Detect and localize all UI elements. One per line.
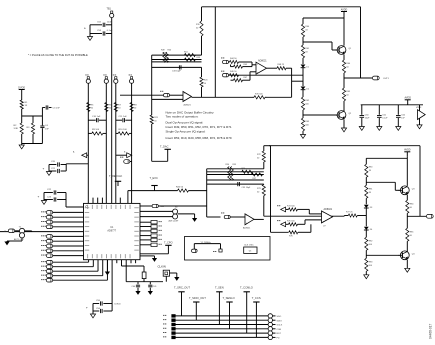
svg-text:AVDD: AVDD <box>404 97 411 100</box>
svg-text:Single Op-Amp per I/Q signal:: Single Op-Amp per I/Q signal: <box>166 129 206 133</box>
optional oscillator box outline <box>185 237 271 261</box>
capacitor C4 branch <box>40 116 49 144</box>
test point T_CPO <box>140 240 173 254</box>
op-amp U4 <box>243 213 254 229</box>
svg-text:C53: C53 <box>97 30 102 32</box>
svg-text:R45: R45 <box>244 64 249 66</box>
connector pad BIAS <box>120 157 132 164</box>
connector U2 input <box>120 91 183 97</box>
wire DUT pin to FB1 <box>122 260 145 272</box>
svg-text:+: + <box>323 219 325 223</box>
svg-text:1K: 1K <box>305 52 308 54</box>
resistor R10 between col3-col4 <box>116 129 132 135</box>
ground pair-B <box>41 201 46 205</box>
svg-text:T_SENLO: T_SENLO <box>223 296 235 300</box>
connector bus right 4 <box>268 327 281 331</box>
diode D3 <box>364 205 373 209</box>
connector IN1A <box>221 58 229 64</box>
transistor Q upper stage1 <box>335 46 352 55</box>
svg-text:500: 500 <box>305 125 309 127</box>
resistor R49 vertical <box>161 49 166 62</box>
resistor R2 branch <box>14 116 24 144</box>
svg-text:RST: RST <box>277 333 282 335</box>
test point T_EXC <box>150 176 158 191</box>
wire stage1 outer frame <box>344 7 372 78</box>
IC U1 pin-name text (micro) <box>85 205 139 259</box>
svg-text:CLKIN: CLKIN <box>158 264 166 268</box>
capacitor C33 <box>172 65 182 72</box>
wire left pin row 1 <box>53 211 84 213</box>
svg-text:AD9777: AD9777 <box>107 230 116 233</box>
svg-text:R55: R55 <box>233 164 238 166</box>
ferrite bead FB1 <box>142 272 146 282</box>
note: buffer circuitry note <box>166 111 232 141</box>
svg-text:R7: R7 <box>118 105 122 107</box>
ground emitter stage2 <box>405 260 410 273</box>
resistor R45 feedback upper <box>231 64 253 68</box>
test point TP5 <box>129 75 134 84</box>
connector pad row 3 <box>41 220 53 224</box>
wire pair-B rails <box>38 193 84 208</box>
wire left pin row 10 <box>53 255 84 257</box>
wire stage1 mid <box>302 58 304 64</box>
connector header pin 1 <box>163 314 176 317</box>
svg-text:T_CPO: T_CPO <box>164 240 173 244</box>
wire ch2 column x206.7 <box>206 169 208 217</box>
test point T_SRC_OUT <box>174 286 190 316</box>
resistor R74 <box>287 205 309 211</box>
wire column TP5 down <box>131 83 133 203</box>
svg-text:R61: R61 <box>305 48 310 50</box>
svg-text:R48 25: R48 25 <box>278 64 285 66</box>
wire base1 stage2 <box>366 177 400 190</box>
resistor R7 <box>114 103 121 112</box>
svg-text:R74 500: R74 500 <box>287 205 295 207</box>
oscillator U5 <box>244 245 257 254</box>
wire ch2 output net <box>264 146 345 233</box>
svg-text:R60: R60 <box>305 26 310 28</box>
resistor R19 vertical <box>196 7 203 55</box>
svg-text:R63: R63 <box>305 121 310 123</box>
ground at DUT bottom pin 6 <box>105 260 112 276</box>
resistor R55 vertical <box>230 164 237 181</box>
svg-text:D3: D3 <box>370 207 373 209</box>
resistor R77 <box>344 212 366 218</box>
text part number <box>429 324 433 339</box>
resistor R5 <box>87 103 94 112</box>
wire pair-A rails <box>43 164 89 172</box>
transistor Q lower stage1 <box>335 111 352 120</box>
wire output node stage1 <box>343 73 345 88</box>
svg-text:T_SDIO_OUT: T_SDIO_OUT <box>189 296 206 300</box>
svg-text:AD8021: AD8021 <box>324 208 333 211</box>
svg-text:R19: R19 <box>196 24 201 26</box>
ground below U6 <box>417 125 422 129</box>
resistor R64 <box>342 54 351 73</box>
svg-text:C33 10pF: C33 10pF <box>172 70 182 72</box>
wire ch2 column upper <box>264 146 271 151</box>
svg-text:U5: U5 <box>249 251 252 253</box>
wire base1 stage1 <box>303 37 337 50</box>
capacitor C21 pair-A bottom <box>49 168 66 173</box>
ground below divider <box>19 144 24 149</box>
svg-text:T2: T2 <box>175 207 178 209</box>
resistor R8 <box>130 103 137 112</box>
svg-text:CLK OSC: CLK OSC <box>244 245 254 247</box>
capacitor C20 pair-A top <box>49 161 66 166</box>
diode D1 <box>301 65 310 69</box>
svg-text:R26 50: R26 50 <box>176 187 184 189</box>
connector pad row 8 <box>41 244 53 248</box>
svg-text:R3: R3 <box>27 127 31 129</box>
svg-text:C61: C61 <box>382 114 387 116</box>
wire T1 to DUT row <box>25 230 32 233</box>
wire row2 to U7 <box>305 220 322 224</box>
svg-text:500: 500 <box>305 104 309 106</box>
wire collector Q lower stage2 <box>406 241 408 251</box>
resistor R73 vertical <box>257 184 265 216</box>
ground pair-A <box>46 172 51 176</box>
resistor R56 <box>242 168 253 173</box>
svg-text:R50: R50 <box>168 49 173 51</box>
svg-text:50: 50 <box>91 108 94 110</box>
capacitor C41 <box>148 282 157 291</box>
wire U7 out <box>343 215 345 218</box>
connector pad row 7 <box>41 239 53 243</box>
svg-text:R47: R47 <box>244 77 249 79</box>
svg-text:R20: R20 <box>204 80 209 82</box>
resistor R50 vertical <box>166 49 173 62</box>
capacitor C61 <box>377 105 388 127</box>
svg-text:T_CCMLO: T_CCMLO <box>240 286 253 290</box>
resistor R34 (boxed) right pin <box>140 238 162 241</box>
svg-text:1K: 1K <box>369 170 372 172</box>
svg-text:Q3: Q3 <box>412 188 416 190</box>
wire stage2 diode junction <box>365 208 367 226</box>
svg-text:AD8021: AD8021 <box>243 227 251 230</box>
svg-text:R77 25: R77 25 <box>346 212 353 214</box>
resistor R44 <box>229 58 257 65</box>
diode D2 <box>301 87 310 91</box>
resistor R53 <box>184 57 201 61</box>
ground below C41 <box>148 291 153 295</box>
svg-text:T_SRC_OUT: T_SRC_OUT <box>174 286 190 290</box>
svg-text:50: 50 <box>257 158 260 160</box>
resistor R31 (boxed) right pin <box>140 225 162 228</box>
svg-text:+: + <box>246 221 248 225</box>
resistor R84 <box>406 195 415 214</box>
resistor R30 (boxed) right pin <box>140 221 162 224</box>
svg-text:T_REFCLK: T_REFCLK <box>109 174 123 178</box>
svg-text:1nF: 1nF <box>45 128 49 130</box>
svg-text:PD: PD <box>277 338 280 340</box>
svg-text:T_CCS: T_CCS <box>252 296 261 300</box>
resistor R20 vertical <box>200 67 208 97</box>
transistor Q upper stage2 <box>398 186 415 195</box>
svg-text:AD8021: AD8021 <box>258 59 267 62</box>
wire output node stage2 <box>406 213 408 228</box>
connector OUT2 <box>426 214 433 218</box>
test point T_SDIO_OUT <box>189 296 206 320</box>
svg-text:D2: D2 <box>306 89 309 91</box>
svg-text:C30: C30 <box>160 206 165 208</box>
svg-text:D4: D4 <box>370 229 373 231</box>
svg-text:C41: C41 <box>153 286 158 288</box>
svg-text:SDIO: SDIO <box>277 320 283 322</box>
connector header pin 5 <box>163 331 176 334</box>
wire node to branches <box>22 109 43 116</box>
svg-text:R70 500: R70 500 <box>255 93 263 95</box>
svg-text:T_SEN: T_SEN <box>215 286 224 290</box>
wire cap left rail <box>90 25 112 37</box>
capacitor C3 top <box>42 105 60 116</box>
connector bus right 6 <box>268 335 280 339</box>
connector bus right 2 <box>268 318 282 322</box>
ground left column stage2 <box>364 271 369 278</box>
wire rail stage1 <box>303 17 344 46</box>
svg-text:3.9K: 3.9K <box>14 128 19 130</box>
capacitor C62 <box>396 105 406 127</box>
ground left column stage1 <box>300 131 305 138</box>
capacitor C23 pair-B bottom <box>44 196 66 201</box>
test point T_CCS <box>252 296 261 338</box>
ground emitter stage1 <box>341 119 346 131</box>
test point T_SENLO <box>223 296 235 329</box>
wire C55 rails <box>86 304 121 315</box>
resistor R9 between col1-col2 <box>88 129 106 135</box>
svg-text:R64: R64 <box>346 63 351 65</box>
wire op5 input <box>207 216 221 218</box>
svg-text:1K: 1K <box>25 105 28 107</box>
connector U4 input <box>221 213 230 219</box>
svg-text:10uF: 10uF <box>365 117 370 119</box>
connector bus right 1 <box>268 314 281 318</box>
resistor R62 <box>301 97 310 110</box>
op-amp U7 <box>322 208 333 227</box>
IC U1 bottom pin stubs <box>117 260 136 264</box>
svg-text:B: B <box>124 152 126 154</box>
svg-text:AVDD: AVDD <box>404 149 411 152</box>
transformer T1 <box>14 226 25 241</box>
svg-text:R62: R62 <box>305 100 310 102</box>
wire left pin row 7 <box>53 240 84 242</box>
wire left pin row 3 <box>53 221 84 223</box>
wire stage1 diode junction <box>302 68 304 86</box>
resistor R60 <box>301 24 310 37</box>
wire DUT bottom pin to C55 pair <box>111 265 113 304</box>
connector IN1B <box>221 71 229 77</box>
svg-text:50: 50 <box>134 108 137 110</box>
wire filter rows ch2 <box>207 169 264 184</box>
ground right pin row <box>140 256 157 262</box>
svg-text:A: A <box>73 151 75 154</box>
svg-text:C62: C62 <box>401 114 406 116</box>
svg-text:CSB: CSB <box>277 329 282 331</box>
wire stage2 mid <box>365 198 367 204</box>
power symbol AVDD stage2 <box>404 149 411 157</box>
svg-text:50: 50 <box>410 207 413 209</box>
svg-text:R76: R76 <box>289 236 294 238</box>
wire column TP2 down <box>87 83 89 203</box>
wire bottom pin fanout <box>53 260 108 281</box>
svg-text:Insert R53, R19, R20, R58, R68: Insert R53, R19, R20, R58, R68, R72, R78… <box>166 136 232 140</box>
connector pad bottom row 3 <box>41 269 53 273</box>
svg-text:R72: R72 <box>257 154 262 156</box>
wire left pin row 5 (to J1) <box>0 231 84 233</box>
connector pad bottom row 1 <box>41 260 53 264</box>
svg-text:R85: R85 <box>410 231 415 233</box>
wire bus line 2 <box>174 319 269 321</box>
svg-text:DVDD: DVDD <box>18 86 25 89</box>
wire left pin row 2 <box>53 216 84 218</box>
svg-text:R53: R53 <box>197 57 202 59</box>
svg-text:C11 1nF: C11 1nF <box>119 116 128 118</box>
svg-text:R51: R51 <box>184 52 189 54</box>
test point T_REFCLK <box>109 174 123 186</box>
svg-text:50: 50 <box>118 108 121 110</box>
svg-text:R84: R84 <box>410 203 415 205</box>
connector CLKIN <box>158 264 170 281</box>
svg-text:50: 50 <box>204 83 207 85</box>
resistor R76 feedback <box>271 231 311 238</box>
svg-text:C60: C60 <box>365 114 370 116</box>
resistor R46 <box>230 71 239 77</box>
svg-text:R80: R80 <box>369 166 374 168</box>
op-amp U2 <box>183 91 192 106</box>
connector J1 <box>4 229 19 233</box>
svg-text:50: 50 <box>196 28 199 30</box>
capacitor C55 <box>93 300 112 306</box>
svg-text:C21: C21 <box>51 168 56 170</box>
svg-text:+: + <box>184 98 186 102</box>
svg-text:-: - <box>184 91 185 95</box>
svg-text:R44 50: R44 50 <box>230 58 237 60</box>
svg-text:C23: C23 <box>47 196 52 198</box>
svg-text:R2: R2 <box>14 125 18 127</box>
svg-text:C3 1nF: C3 1nF <box>53 108 61 110</box>
svg-text:R81: R81 <box>369 188 374 190</box>
svg-text:U7: U7 <box>323 226 326 228</box>
wire column TP3 down <box>105 83 107 203</box>
wire clk rail <box>126 260 163 282</box>
resistor R57 <box>252 173 263 180</box>
connector pad bottom row 2 <box>41 265 53 269</box>
svg-text:10uF: 10uF <box>107 22 113 24</box>
resistor R61 <box>301 45 310 58</box>
test point TP2 <box>85 75 90 84</box>
reference U6 <box>416 105 425 125</box>
wire bus line 4 <box>174 328 269 330</box>
capacitor C11 between col3-col4 <box>116 116 132 122</box>
svg-text:ADT1-1WT: ADT1-1WT <box>169 220 180 223</box>
svg-text:500: 500 <box>369 265 373 267</box>
svg-text:1K: 1K <box>305 30 308 32</box>
svg-text:R1: R1 <box>25 102 29 104</box>
capacitor C52 <box>97 22 112 27</box>
connector header pin 6 <box>163 336 176 339</box>
connector pad row 9 <box>41 249 53 253</box>
svg-text:50: 50 <box>410 235 413 237</box>
wire collector Q lower stage1 <box>343 101 345 111</box>
wire top rail <box>202 6 361 8</box>
wire feedback vertical <box>310 224 312 232</box>
wire row C long <box>229 74 304 76</box>
svg-text:50: 50 <box>346 95 349 97</box>
test point TP3 <box>103 75 108 84</box>
connector pad row 4 <box>41 225 53 229</box>
connector OUT1 <box>372 76 389 80</box>
svg-text:R54: R54 <box>226 164 231 166</box>
wire left pin row 8 <box>53 245 84 247</box>
ground below C61 <box>377 127 382 131</box>
svg-text:SDO: SDO <box>277 316 282 318</box>
svg-text:R21: R21 <box>154 117 159 119</box>
wire U3 output <box>267 67 278 69</box>
connector pad REFIO <box>140 204 207 208</box>
wire filter rows ch1 <box>152 55 202 99</box>
svg-text:+: + <box>84 27 86 31</box>
connector bus right 5 <box>268 331 281 335</box>
resistor R81 <box>365 185 374 198</box>
capacitor C40 <box>132 282 141 291</box>
wire T2 secondary to ground <box>178 214 198 222</box>
wire T1 secondary to ground <box>4 238 22 246</box>
ground below C52/C53 <box>84 27 93 41</box>
ground below C60 <box>359 127 364 131</box>
svg-text:500: 500 <box>369 244 373 246</box>
svg-text:1nF: 1nF <box>401 117 405 119</box>
svg-text:R8: R8 <box>134 105 138 107</box>
wire row C jog to opamp <box>250 72 256 75</box>
transistor Q lower stage2 <box>398 251 415 260</box>
svg-text:C10 1nF: C10 1nF <box>92 116 101 118</box>
resistor R3 branch <box>27 116 35 144</box>
svg-text:C20: C20 <box>51 161 56 163</box>
connector header pin 3 <box>163 323 176 326</box>
svg-text:Q1: Q1 <box>349 48 353 50</box>
svg-text:0.1uF: 0.1uF <box>382 117 388 119</box>
capacitor C35 <box>238 182 251 189</box>
wire bus line 5 <box>174 332 269 334</box>
resistor R51 <box>184 52 195 57</box>
svg-text:AD8021: AD8021 <box>184 103 192 106</box>
ground below C40 <box>135 291 140 295</box>
resistor R83 <box>365 258 374 271</box>
svg-text:C35 10pF: C35 10pF <box>242 187 252 189</box>
svg-text:Q2: Q2 <box>349 113 353 115</box>
connector pad bottom row 5 <box>41 278 53 282</box>
resistor R1 vertical <box>20 95 28 110</box>
IC U1 body <box>84 203 141 259</box>
resistor R75 <box>287 220 305 226</box>
wire feedback row <box>192 96 292 98</box>
capacitor C22 pair-B top <box>44 189 66 194</box>
wire bottom rail of divider <box>22 143 43 145</box>
svg-text:-: - <box>246 213 247 217</box>
resistor R85 <box>406 228 415 241</box>
svg-text:+: + <box>38 195 40 199</box>
svg-text:AVDD: AVDD <box>341 8 348 11</box>
connector bus right 3 <box>268 322 283 326</box>
connector pad row 6 <box>41 235 53 239</box>
wire AUX net with resistor R26 <box>128 187 207 204</box>
diode D4 <box>364 227 373 231</box>
wire base2 stage2 <box>366 250 400 258</box>
svg-text:R5: R5 <box>91 105 95 107</box>
wire bus line 1 <box>174 315 269 317</box>
wire row1 to U7 <box>309 209 321 214</box>
wire U2 plus input <box>152 98 183 100</box>
